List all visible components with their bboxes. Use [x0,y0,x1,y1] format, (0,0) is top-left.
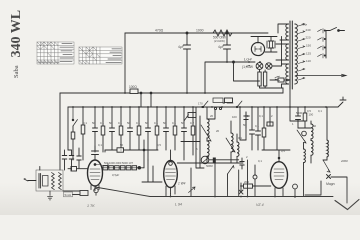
resistor row above rail B second box [223,98,233,103]
table T2 (voltages) [79,47,122,64]
contact winding heater [275,76,280,80]
tiny labels sprinkle [98,109,322,163]
contact lamp left [246,65,250,66]
capacitor C-rect pair [265,37,277,53]
tiny labels mid right [210,109,311,128]
potentiometer volume [201,156,213,168]
wire small corner left of magnet [305,181,321,195]
ground antenna box [48,191,53,200]
coil L2 [231,121,233,163]
bottom bus [150,196,333,198]
transformer primary winding [286,24,289,40]
label voltage taps [306,28,312,63]
label 100 [309,113,314,117]
tube V1 RENS1214 [88,146,109,191]
wire converter verticals [196,107,204,168]
IF coil [237,134,239,163]
wire lamp feed y81 [234,62,260,81]
resistor Rb6 [173,107,177,150]
transformer winding 3 [286,64,289,84]
capacitor Cb3 [128,107,133,150]
wire IF horizontal link [262,149,290,151]
IF section verticals [240,107,277,150]
capacitor Cb4 [146,107,151,160]
wire tube1 to bus [73,194,81,196]
switch arrow mid [228,166,235,175]
switch arrow right [323,160,330,172]
choke Lr2 [327,107,328,160]
resistor Rb2 [101,107,105,152]
wire lamp bottoms [260,69,284,93]
wire rail B (y107) [68,106,338,108]
capacitor Cb2 [110,107,115,150]
wire drops from rail A [141,93,151,107]
coil Lr3 lower [304,143,306,197]
label cursive near V2 [178,182,186,186]
contact circle r [302,131,307,136]
antenna input arrow [24,178,28,181]
wire tube2 topcap up [170,150,172,162]
resistor Rb7 [191,107,195,155]
capacitor Cr1 [296,107,301,128]
junction dots rail B [72,106,327,108]
switch row [202,98,242,108]
resistor Rb3 [119,107,123,150]
label wire 470 [155,29,164,33]
switch contacts column [318,29,326,59]
label under chain [112,173,119,177]
rectifier tube LG4 [244,37,277,62]
capacitor Ca1 left [62,150,67,170]
coil Lr1 [311,121,313,163]
circle component bottom [293,184,298,189]
label V3 [256,203,264,207]
junction dots rail A [124,61,261,94]
capacitor C-det [240,158,244,169]
resistor Rr1 [303,107,307,128]
table T1 (tube data) [37,42,74,64]
wire tube2 anode to pot [177,160,238,163]
resistor Rb5 [155,107,159,150]
oscillator coil L1 [207,107,209,163]
title Saba 340WL [9,10,24,78]
resistor R-mains (zigzag) [213,30,232,36]
field coil feed [270,78,290,107]
wire link right [290,107,311,128]
resistor R100 on rail A [129,85,152,94]
wire heater line [205,62,255,93]
tube V3 [271,150,288,194]
junction dots bus [170,196,296,198]
wire sloped bus left [95,187,150,197]
speaker V shape [335,200,359,210]
capacitor Cb5 [164,107,169,150]
wire tube2 pins to bus [166,194,171,197]
wire secondary long arrow [296,74,346,76]
variable arrow L1 [201,125,211,141]
wire magnet corner [331,177,347,203]
antenna coil box [28,167,80,192]
transformer winding 2 [286,44,289,60]
wire mid verticals to bus [191,160,248,197]
arrow terminal phono [189,187,196,193]
label Magn [326,182,335,186]
resistor Rlamp2 [263,72,266,86]
contact circle mid [253,175,257,179]
x junction bottom [239,190,243,194]
wire bus drops [241,183,295,198]
wire tube3 pins to bus [275,194,283,197]
label V2 [175,203,182,207]
output jack under V1 [80,188,98,195]
resistor chain R-volume [103,161,144,170]
wire selector vertical [325,31,327,59]
blocking cap dark [213,158,216,163]
resistor Rb1 [81,107,85,160]
wire mid link left [105,149,158,151]
lamp P1 [256,62,263,69]
variable arrow right [297,130,306,143]
resistor Rlamp1 [258,72,261,86]
x junction right [327,175,331,179]
capacitor Ca2 left [68,150,74,170]
tube V2 [164,161,178,195]
wire left verticals [60,93,68,170]
antenna symbol right end [338,97,346,107]
contact circles converter [214,107,216,109]
resistor Rb4 [137,107,141,150]
transformer T1 core [290,21,292,89]
label lamps [242,65,254,69]
resistor grid V1 [68,167,88,172]
switch S1 [71,107,77,160]
capacitor C-filter2 [218,32,231,62]
tiny labels above row [83,121,194,125]
resistor under V3 [241,180,271,188]
label V1 [87,204,95,208]
label 5mm [64,192,73,197]
lamp P2 [266,63,282,69]
capacitor C-conv [244,112,248,128]
label wire 1000 [196,29,204,33]
transformer secondary winding with taps [295,24,298,84]
wire rail A (y93) [60,92,283,94]
variable arrow L2 [226,138,235,152]
wire osc bottom [195,162,243,164]
capacitor Cb1 [93,107,98,152]
capacitor C-filter1 [178,32,191,93]
switch mains [326,28,345,31]
wire left drop from power rail [124,33,126,93]
wire top power rail [125,32,268,34]
capacitor Cb6 [182,107,187,160]
switch and box right end of row [181,113,200,142]
label right scribble [340,159,348,163]
label mains scribble [302,23,308,27]
wire chain drop [143,140,145,168]
wire mid drops [105,150,121,152]
junction dots mid bus [214,196,248,198]
wire primary leads [276,24,289,88]
capacitor Cleft3 [77,148,81,168]
wire grid link V2 [142,160,162,182]
tap arrows [298,23,305,80]
label resistor value [213,36,226,44]
